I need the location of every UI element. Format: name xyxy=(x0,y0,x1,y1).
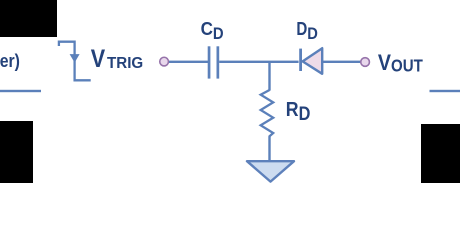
node VTRIG xyxy=(160,57,169,66)
wire capacitor to junction to diode xyxy=(219,61,298,63)
svg-text:R: R xyxy=(286,99,299,121)
wire resistor to ground xyxy=(268,137,270,161)
wire node to capacitor xyxy=(169,61,208,63)
node VOUT xyxy=(361,58,370,67)
svg-text:V: V xyxy=(91,45,106,73)
wire diode to node VOUT xyxy=(323,61,361,63)
diode D1 triangle xyxy=(303,48,323,74)
black block bottom-right xyxy=(421,124,460,183)
resistor R_D zigzag xyxy=(261,90,274,137)
black block bottom-left xyxy=(0,121,33,183)
trigger edge symbol xyxy=(59,42,91,81)
svg-text:D: D xyxy=(296,18,307,39)
svg-text:OUT: OUT xyxy=(391,55,423,75)
svg-text:D: D xyxy=(213,24,224,43)
svg-text:C: C xyxy=(201,18,213,39)
vertical wire junction down to resistor xyxy=(268,62,270,91)
capacitor C1 left plate xyxy=(208,46,211,78)
capacitor C1 right plate xyxy=(217,46,220,78)
ground symbol xyxy=(247,161,294,181)
svg-text:TRIG: TRIG xyxy=(107,55,143,72)
svg-text:er): er) xyxy=(0,50,20,71)
svg-text:V: V xyxy=(378,50,392,75)
trigger arrowhead xyxy=(70,54,80,63)
svg-text:D: D xyxy=(307,24,318,43)
svg-text:D: D xyxy=(299,104,311,125)
wire left edge xyxy=(0,90,41,92)
diode D1 cathode bar xyxy=(299,49,302,71)
black block top-left xyxy=(0,0,57,37)
wire right edge xyxy=(430,90,460,92)
